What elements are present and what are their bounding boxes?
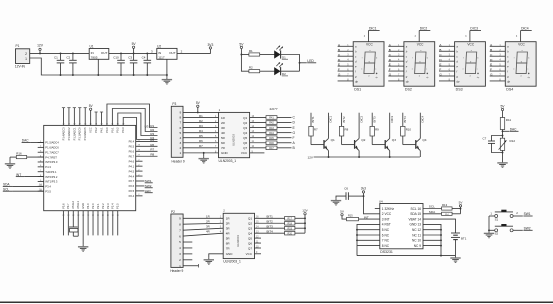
ground for RTC — [450, 256, 460, 263]
svg-text:GND 13: GND 13 — [409, 223, 421, 227]
svg-text:R11: R11 — [506, 118, 512, 122]
power flag 5V — [132, 42, 137, 53]
svg-text:E: E — [439, 63, 441, 67]
svg-text:R13: R13 — [442, 203, 448, 207]
node 5V split for D1 D2 — [240, 54, 242, 56]
wires P2 to ULN2 inputs with net labels 1R-4R — [183, 215, 223, 236]
svg-text:B: B — [490, 48, 492, 52]
svg-text:Q3: Q3 — [248, 227, 252, 231]
svg-text:C4: C4 — [142, 55, 146, 59]
net label DIC4 — [521, 27, 532, 31]
wire R11 to DAC node — [502, 130, 504, 161]
resistor R1 — [241, 49, 274, 56]
wire branch to R2 — [241, 55, 249, 72]
svg-text:DIC1: DIC1 — [329, 116, 333, 123]
svg-text:R17: R17 — [288, 218, 293, 221]
svg-text:P0.0: P0.0 — [105, 127, 109, 133]
driver U6 ULN2003 upper — [219, 108, 250, 163]
net label DIC2 — [419, 27, 430, 31]
svg-text:XTAL2: XTAL2 — [71, 201, 75, 209]
capacitor C1 — [54, 53, 64, 75]
node LED net tap — [299, 62, 301, 64]
svg-text:P1: P1 — [16, 44, 20, 48]
svg-text:BIT3: BIT3 — [267, 225, 274, 229]
svg-text:4: 4 — [179, 136, 181, 140]
wires segment inputs A-G of DS2 — [388, 43, 404, 82]
sheet border bottom line — [0, 301, 553, 303]
switch S1 SW1 — [490, 210, 532, 222]
svg-text:P0.7: P0.7 — [129, 154, 135, 158]
svg-text:R6: R6 — [150, 143, 154, 147]
svg-text:R19: R19 — [288, 227, 293, 230]
svg-text:P2.5: P2.5 — [129, 189, 135, 193]
svg-text:R43: R43 — [269, 127, 274, 130]
svg-text:C7: C7 — [482, 136, 486, 140]
svg-text:R46: R46 — [269, 142, 274, 145]
svg-text:3V3: 3V3 — [207, 43, 213, 47]
svg-text:P2.2: P2.2 — [101, 203, 105, 209]
node 5V junction on pin9 wire — [197, 111, 199, 113]
wire 12V rail for BIT resistors — [304, 215, 306, 233]
ground for switches — [484, 231, 494, 238]
node C6 junction on 3V3 wire — [363, 195, 365, 197]
svg-text:Q7: Q7 — [248, 246, 252, 250]
svg-text:DS3231: DS3231 — [380, 250, 393, 254]
node emitter rail junction 1 — [328, 156, 330, 158]
svg-text:ULN2003: ULN2003 — [236, 235, 240, 247]
wire Q2 collector to DIC2 — [359, 113, 363, 139]
svg-text:Q3: Q3 — [392, 138, 396, 142]
svg-text:P4.2: P4.2 — [94, 127, 98, 133]
stub 32KHz pin — [375, 208, 380, 210]
svg-text:DIC3: DIC3 — [470, 27, 478, 31]
svg-text:P1.2/ADC1: P1.2/ADC1 — [72, 127, 76, 141]
wire DIC3 to display common pin — [469, 31, 471, 42]
MCU left pin stubs — [38, 141, 44, 192]
svg-text:INT0/P3.2: INT0/P3.2 — [45, 175, 58, 179]
svg-text:R10: R10 — [406, 128, 412, 132]
capacitor C2 — [66, 53, 76, 75]
svg-text:VCC: VCC — [467, 43, 474, 47]
svg-text:5 NC: 5 NC — [382, 228, 390, 232]
svg-text:GND: GND — [226, 252, 234, 256]
node C7 bottom junction — [502, 152, 504, 154]
svg-text:C3: C3 — [128, 55, 132, 59]
svg-text:1: 1 — [179, 151, 181, 155]
svg-text:2 VCC: 2 VCC — [382, 212, 392, 216]
wire P1 pin1 to ground rail — [30, 58, 167, 75]
svg-text:IN: IN — [91, 51, 94, 55]
trimmer R12 — [499, 138, 516, 150]
svg-text:P2: P2 — [171, 210, 175, 214]
svg-text:1 32KHz: 1 32KHz — [382, 207, 395, 211]
wire SW1 SW2 common to ground — [489, 216, 494, 230]
net label BIT3 vertical — [372, 116, 376, 122]
svg-text:P2.4: P2.4 — [111, 203, 115, 209]
ULN1 output wires to resistor pack — [250, 116, 266, 148]
svg-text:P0.2: P0.2 — [116, 127, 120, 133]
svg-text:VCC: VCC — [518, 43, 525, 47]
regulator U2 1117 — [151, 45, 177, 60]
svg-text:R16: R16 — [16, 152, 22, 156]
svg-text:DIC1: DIC1 — [369, 27, 377, 31]
svg-text:P3.7: P3.7 — [66, 203, 70, 209]
node ground junction — [203, 152, 205, 154]
node SW common junction — [488, 229, 490, 231]
wire GND pin 13 down to rail — [423, 224, 441, 255]
svg-text:P3.4: P3.4 — [45, 185, 51, 189]
svg-text:C1: C1 — [54, 55, 58, 59]
svg-text:R3: R3 — [199, 124, 203, 128]
svg-text:R7: R7 — [199, 144, 203, 148]
transistor Q3 PNP — [385, 138, 396, 151]
net label INT to MCU — [16, 173, 44, 177]
svg-text:Q2: Q2 — [248, 222, 252, 226]
power flag 5V for DAC filter — [500, 105, 505, 118]
resistor R11 — [500, 118, 511, 130]
svg-text:P1.6/ADC6: P1.6/ADC6 — [45, 146, 59, 150]
svg-text:Q4: Q4 — [422, 138, 426, 142]
svg-text:7805: 7805 — [91, 55, 98, 59]
svg-text:6 NC: 6 NC — [382, 233, 390, 237]
svg-text:DIC2: DIC2 — [359, 116, 363, 123]
wire RTC bottom ground rail — [357, 255, 456, 257]
svg-text:U3: U3 — [145, 125, 149, 129]
svg-text:R1: R1 — [199, 114, 203, 118]
svg-text:INT1/P3.3: INT1/P3.3 — [45, 180, 58, 184]
net labels SW1 SW2 LED from MCU — [136, 179, 153, 193]
wires SCL SDA with pullups R13 R14 — [423, 203, 461, 216]
svg-text:R4: R4 — [199, 129, 203, 133]
svg-text:VCC: VCC — [89, 127, 93, 133]
svg-text:221*7: 221*7 — [270, 107, 278, 111]
net label BIT4 vertical — [403, 116, 407, 122]
svg-text:BIT4: BIT4 — [403, 116, 407, 122]
svg-text:R8: R8 — [150, 153, 154, 157]
svg-text:12V: 12V — [302, 209, 308, 213]
svg-text:2R: 2R — [206, 220, 210, 224]
svg-text:VCC: VCC — [417, 43, 424, 47]
svg-text:R12: R12 — [510, 139, 516, 143]
resistor pack 221*7 — [266, 107, 278, 150]
svg-text:P2.6: P2.6 — [129, 184, 135, 188]
resistor R15 INT pullup — [347, 214, 359, 220]
wire Q1 emitter to 12V rail — [328, 151, 330, 157]
svg-text:P1.4/ADC3: P1.4/ADC3 — [61, 127, 65, 141]
svg-text:P0.6: P0.6 — [129, 150, 135, 154]
ground for C6 — [331, 198, 341, 205]
svg-text:P0.1: P0.1 — [110, 127, 114, 133]
svg-text:E: E — [389, 63, 391, 67]
wires P0.0-P0.3 hooks to net labels R1-R4 — [107, 104, 158, 140]
svg-text:P1.5/ADC4: P1.5/ADC4 — [45, 141, 59, 145]
ULN2 VCC stub pin 9 — [255, 252, 262, 254]
svg-text:R41: R41 — [269, 117, 274, 120]
svg-text:P1.1/ADC0: P1.1/ADC0 — [78, 127, 82, 141]
svg-text:R45: R45 — [269, 137, 274, 140]
wires P3 to ULN2003 inputs with net labels R1-R7 — [183, 114, 219, 148]
wires ULN2 outputs to BIT1-BIT4 labels and pull resistors — [255, 215, 306, 236]
battery BT1 — [451, 231, 467, 256]
connector P1 12V-IN — [15, 44, 30, 68]
svg-text:8 NC: 8 NC — [382, 244, 390, 248]
svg-text:F: F — [439, 68, 441, 72]
svg-text:OUT: OUT — [169, 51, 176, 55]
svg-text:R2: R2 — [199, 119, 203, 123]
svg-text:BIT3: BIT3 — [372, 116, 376, 122]
svg-text:BT1: BT1 — [461, 237, 467, 241]
wire U2 GND pin down — [166, 59, 168, 77]
svg-text:BIT1: BIT1 — [311, 116, 315, 122]
svg-text:5: 5 — [179, 240, 181, 244]
svg-text:DIC4: DIC4 — [421, 116, 425, 123]
svg-text:P0.3: P0.3 — [121, 127, 125, 133]
svg-text:NC 11: NC 11 — [412, 233, 421, 237]
wires segment inputs A-G of DS4 — [490, 43, 506, 82]
svg-text:NC 12: NC 12 — [412, 228, 421, 232]
svg-text:P3.5: P3.5 — [45, 189, 51, 193]
ground for MCU — [78, 244, 88, 251]
svg-text:INT: INT — [364, 215, 369, 219]
svg-text:dp: dp — [456, 80, 459, 84]
LED D2 — [274, 62, 288, 76]
wire GND pin to ground — [82, 211, 84, 245]
svg-text:9: 9 — [179, 111, 181, 115]
svg-text:12V: 12V — [307, 155, 313, 159]
wire P3 pin1 GND row to ULN pin 8 — [183, 151, 219, 153]
svg-text:2: 2 — [25, 52, 27, 56]
svg-text:DS3: DS3 — [456, 88, 463, 92]
svg-text:P4.1: P4.1 — [99, 127, 103, 133]
svg-text:3: 3 — [179, 252, 181, 256]
svg-text:P2.5: P2.5 — [116, 203, 120, 209]
power flag 3V3 for RTC VCC — [361, 187, 366, 193]
svg-text:INT0/P3.0: INT0/P3.0 — [45, 160, 58, 164]
microcontroller U5 main MCU — [44, 125, 136, 210]
svg-text:Q4: Q4 — [248, 231, 252, 235]
svg-text:8: 8 — [179, 116, 181, 120]
svg-text:7 NC: 7 NC — [382, 239, 390, 243]
driver U7 ULN2003 lower — [223, 209, 254, 264]
svg-text:R20: R20 — [288, 232, 293, 235]
svg-text:DIC2: DIC2 — [420, 27, 428, 31]
svg-text:D2: D2 — [282, 72, 286, 76]
svg-text:E: E — [490, 63, 492, 67]
net label LED — [300, 59, 317, 63]
svg-text:SDA 15: SDA 15 — [410, 212, 421, 216]
svg-text:P4.7/RST: P4.7/RST — [45, 155, 57, 159]
svg-text:Q7: Q7 — [243, 146, 247, 150]
wire DIC4 to display common pin — [520, 31, 522, 42]
svg-text:C10: C10 — [113, 55, 119, 59]
svg-text:R1: R1 — [249, 49, 253, 53]
svg-text:6: 6 — [179, 234, 181, 238]
ground for R16 — [5, 161, 15, 168]
svg-text:U1: U1 — [90, 45, 94, 49]
svg-text:F: F — [293, 136, 295, 140]
capacitor C7 — [482, 135, 503, 153]
wire 3V3 to VCC pin 2 — [364, 193, 380, 214]
svg-text:SCL 16: SCL 16 — [410, 207, 421, 211]
svg-text:Q5: Q5 — [243, 136, 247, 140]
wire Q4 collector to DIC4 — [420, 113, 424, 139]
wire U2 output to 3V3 — [177, 49, 210, 54]
seven-segment display DS2 — [404, 42, 435, 86]
svg-text:R47: R47 — [269, 147, 274, 150]
svg-text:F: F — [338, 68, 340, 72]
svg-text:C6: C6 — [344, 187, 348, 191]
svg-text:P4.6: P4.6 — [129, 159, 135, 163]
svg-text:BIT2: BIT2 — [267, 220, 274, 224]
svg-text:4: 4 — [179, 246, 181, 250]
svg-text:P0.5: P0.5 — [129, 145, 135, 149]
wires P0.4-P0.7 to net labels R5-R8 — [136, 138, 158, 157]
svg-text:SCL: SCL — [429, 205, 435, 209]
svg-text:DS2: DS2 — [405, 88, 412, 92]
power flag 12V for BIT pull resistors — [302, 209, 308, 215]
svg-text:OUT: OUT — [101, 51, 108, 55]
svg-text:Q1: Q1 — [248, 217, 252, 221]
wire P3 pin9 with 5V flag — [183, 101, 219, 112]
svg-text:3R: 3R — [206, 225, 210, 229]
svg-text:7: 7 — [179, 121, 181, 125]
wire VBAT to battery — [423, 219, 456, 231]
capacitor C6 — [336, 187, 364, 200]
svg-text:1117: 1117 — [158, 55, 165, 59]
svg-text:1: 1 — [25, 57, 27, 61]
crystal Y1 — [69, 211, 78, 237]
stub wires ULN2 pins 12 11 10 — [255, 237, 262, 249]
wire ground stem — [203, 153, 205, 156]
svg-text:Q6: Q6 — [243, 141, 247, 145]
svg-text:DIC4: DIC4 — [521, 27, 529, 31]
wire U1 GND pin to ground rail — [97, 59, 99, 75]
svg-text:S1: S1 — [495, 217, 499, 221]
svg-text:R15: R15 — [348, 214, 353, 217]
net label DAC to MCU pin 1 — [22, 139, 44, 143]
svg-text:BIT4: BIT4 — [267, 229, 274, 233]
transistor Q1 PNP — [324, 138, 335, 151]
wire 12V emitter rail — [307, 155, 419, 159]
capacitor C3 — [128, 53, 137, 75]
wire ULN2 GND to ground — [209, 254, 223, 258]
wire Q2 emitter to 12V rail — [358, 151, 360, 157]
node SCL pullup junction — [460, 208, 462, 210]
net label DIC1 — [368, 27, 379, 31]
svg-text:R8: R8 — [345, 128, 349, 132]
svg-text:ULN2003: ULN2003 — [232, 134, 236, 146]
svg-text:DS1: DS1 — [354, 88, 361, 92]
svg-text:2: 2 — [179, 146, 181, 150]
svg-text:R9: R9 — [375, 128, 379, 132]
svg-text:4R: 4R — [206, 229, 210, 233]
svg-text:3 INT: 3 INT — [382, 217, 390, 221]
svg-text:Q2: Q2 — [361, 138, 365, 142]
svg-text:Header 9: Header 9 — [170, 269, 183, 273]
svg-text:P2.3: P2.3 — [106, 203, 110, 209]
svg-text:dp: dp — [507, 80, 510, 84]
svg-text:9: 9 — [179, 217, 181, 221]
svg-text:P1.3/ADC2: P1.3/ADC2 — [67, 127, 71, 141]
net label DIC3 — [470, 27, 481, 31]
svg-text:P2.4: P2.4 — [129, 194, 135, 198]
wire DIC2 to display common pin — [418, 31, 420, 42]
power flag 3V3 — [207, 43, 213, 49]
svg-text:Q1: Q1 — [331, 138, 335, 142]
svg-text:12V: 12V — [37, 44, 44, 48]
net label SDA to MCU pin 10 — [3, 183, 44, 187]
ULN1 VCC stub pin 9 — [250, 151, 265, 153]
svg-text:GND: GND — [81, 203, 85, 209]
svg-text:R44: R44 — [269, 132, 274, 135]
ground for DAC filter — [497, 161, 507, 168]
seven-segment display DS4 — [505, 42, 536, 86]
wire P2 pin1 stub — [183, 264, 198, 267]
node 12V rail junction — [39, 52, 41, 54]
svg-text:Q5: Q5 — [248, 236, 252, 240]
svg-text:SDA: SDA — [429, 210, 436, 214]
wire Q1 collector to DIC1 — [329, 113, 333, 139]
RTC U4 DS3231 — [379, 199, 423, 254]
svg-text:XTAL1: XTAL1 — [76, 201, 80, 209]
wire Q3 collector to DIC3 — [390, 113, 394, 139]
resistor R2 — [249, 66, 275, 73]
resistor R8 base resistor — [339, 113, 354, 145]
wire Q4 emitter to 12V rail — [419, 151, 421, 157]
node emitter rail junction 2 — [358, 156, 360, 158]
capacitor C10 — [113, 53, 125, 75]
wire DIC1 to display common pin — [368, 31, 370, 42]
svg-text:P2.0: P2.0 — [91, 203, 95, 209]
svg-text:6: 6 — [179, 126, 181, 130]
svg-text:NC 10: NC 10 — [412, 239, 421, 243]
svg-text:1R: 1R — [206, 215, 210, 219]
wires resistor pack to segment net labels — [277, 116, 296, 150]
svg-text:R7: R7 — [150, 148, 154, 152]
svg-text:5: 5 — [179, 131, 181, 135]
transistor Q4 PNP — [416, 138, 427, 151]
ground for P3/ULN1 — [199, 156, 209, 163]
svg-text:4 RST: 4 RST — [382, 223, 391, 227]
ground of power section — [162, 77, 172, 84]
svg-text:P4.1: P4.1 — [129, 164, 135, 168]
net label SCL to MCU pin 11 — [3, 188, 44, 192]
svg-text:R6: R6 — [199, 139, 203, 143]
svg-text:2: 2 — [179, 258, 181, 262]
svg-text:P0.4: P0.4 — [129, 140, 135, 144]
svg-text:IN: IN — [158, 51, 161, 55]
MCU bottom pin stubs — [62, 211, 119, 236]
svg-text:U2: U2 — [157, 45, 161, 49]
svg-text:Header 9: Header 9 — [172, 159, 185, 163]
svg-text:ULN2003_1: ULN2003_1 — [219, 159, 237, 163]
svg-text:GND: GND — [221, 151, 229, 155]
wire D2 to output node — [281, 70, 300, 72]
svg-text:U4: U4 — [379, 199, 383, 203]
switch S2 SW2 — [495, 224, 533, 236]
svg-text:Q1: Q1 — [243, 116, 247, 120]
net label DAC output — [502, 128, 519, 133]
power flag 5V for LEDs — [239, 42, 244, 54]
svg-text:NC 9: NC 9 — [414, 244, 421, 248]
wire D1 to output node — [281, 55, 300, 72]
net labels R1-R4 — [145, 124, 155, 140]
net label BIT1 vertical — [311, 116, 315, 122]
svg-text:R5: R5 — [150, 138, 154, 142]
svg-text:P4.5: P4.5 — [129, 169, 135, 173]
svg-text:8: 8 — [179, 222, 181, 226]
resistor R16 on RST pin — [10, 152, 44, 162]
